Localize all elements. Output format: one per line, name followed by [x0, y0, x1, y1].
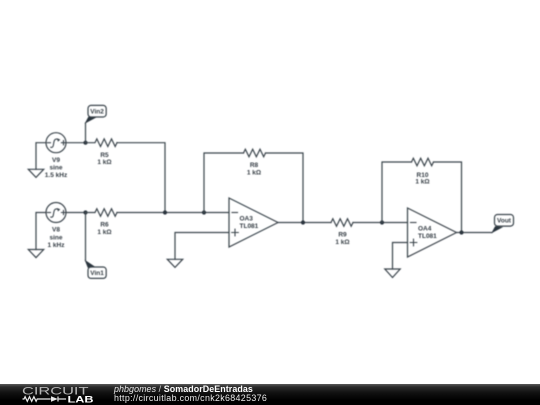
svg-text:Vin1: Vin1 [90, 270, 104, 277]
svg-text:V8: V8 [52, 227, 60, 234]
junction node feedback tap R8 [202, 210, 206, 214]
wire OA3 non-inverting input to ground [175, 233, 229, 260]
wire V9 negative terminal to ground [36, 143, 46, 170]
svg-text:1 kΩ: 1 kΩ [415, 179, 429, 186]
op-amp OA4 [408, 208, 457, 257]
voltage source V8 [46, 203, 66, 249]
junction node Vin2 [83, 141, 87, 145]
svg-text:Vout: Vout [497, 218, 512, 225]
wire V8 negative terminal to ground [36, 213, 46, 250]
junction node Vin1 [83, 210, 87, 214]
svg-text:LAB: LAB [68, 394, 94, 404]
resistor R8 [244, 149, 266, 176]
svg-text:R5: R5 [100, 152, 109, 159]
net flag Vout [491, 215, 513, 234]
ground (below V8) [28, 250, 43, 258]
wire R5 output down to summing row [117, 143, 165, 213]
svg-text:1 kΩ: 1 kΩ [335, 239, 349, 246]
wire V8 positive terminal to node Vin1 [66, 212, 86, 214]
wire OA4 non-inverting input to ground [393, 243, 408, 270]
junction node OA3 output / R8 [301, 220, 305, 224]
junction node R5/R6 [163, 210, 167, 214]
svg-text:OA3: OA3 [240, 215, 254, 222]
svg-text:1 kΩ: 1 kΩ [247, 170, 261, 177]
resistor R6 [86, 209, 118, 236]
ground (OA3 non-inverting input) [167, 259, 182, 267]
wire OA4 output to Vout [457, 232, 493, 234]
resistor R10 [412, 158, 434, 185]
svg-text:TL081: TL081 [240, 223, 259, 230]
net flag Vin1 [85, 213, 107, 279]
svg-text:V9: V9 [52, 157, 60, 164]
net flag Vin2 [85, 105, 107, 142]
svg-text:sine: sine [49, 165, 62, 172]
resistor R5 [86, 139, 118, 166]
svg-text:TL081: TL081 [418, 233, 437, 240]
resistor R8 feedback wire [204, 153, 303, 223]
junction node OA4 output / R10 [459, 230, 463, 234]
svg-text:Vin2: Vin2 [90, 109, 104, 116]
voltage source V9 [45, 133, 68, 179]
svg-text:1 kHz: 1 kHz [48, 242, 66, 249]
op-amp OA3 [229, 198, 278, 247]
svg-text:1 kΩ: 1 kΩ [97, 229, 111, 236]
ground (OA4 non-inverting input) [385, 269, 400, 278]
footer bar [0, 384, 540, 405]
resistor R9 [331, 219, 353, 246]
resistor R10 feedback wire [382, 162, 462, 233]
footer credit text [114, 385, 267, 403]
wire R9 to op-amp OA4 inverting input [353, 222, 408, 224]
svg-text:1.5 kHz: 1.5 kHz [45, 172, 68, 179]
svg-text:OA4: OA4 [418, 225, 432, 232]
svg-text:sine: sine [49, 234, 62, 241]
svg-text:R8: R8 [250, 162, 259, 169]
svg-text:1 kΩ: 1 kΩ [97, 159, 111, 166]
junction node feedback tap R10 [380, 220, 384, 224]
ground (below V9) [28, 169, 43, 177]
wire OA3 output to R9 [278, 222, 331, 224]
wire R6 output to op-amp OA3 inverting input [117, 212, 229, 214]
wire V9 positive terminal to node Vin2 [66, 142, 86, 144]
svg-text:R6: R6 [100, 222, 109, 229]
svg-text:R9: R9 [338, 232, 347, 239]
CircuitLab logo [21, 385, 96, 404]
